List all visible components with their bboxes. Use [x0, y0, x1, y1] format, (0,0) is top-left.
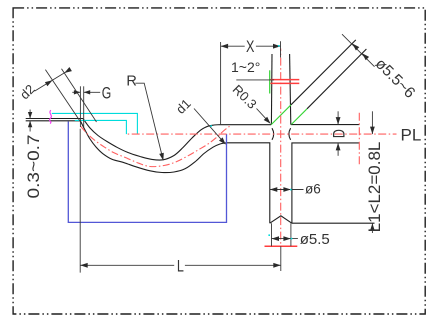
dimension X line [221, 45, 281, 47]
svg-text:ø6: ø6 [305, 182, 321, 197]
hole intersection arc left [272, 128, 274, 140]
green hole edge mark [269, 70, 271, 93]
channel bottom line to hole [227, 143, 270, 223]
svg-text:0.3~0.7: 0.3~0.7 [24, 135, 43, 199]
channel center red curve [81, 126, 230, 166]
right face centerline [358, 113, 360, 167]
dia5.5 extension lines [272, 223, 291, 246]
dimension d2 line [35, 70, 69, 91]
dimension L extension left [79, 129, 81, 273]
magenta break mark [49, 110, 51, 123]
wire [26, 119, 83, 121]
bottom face line [292, 222, 375, 224]
wall thickness arrows [29, 110, 31, 132]
dimension G line [72, 91, 100, 93]
angled hole upper wall [291, 40, 356, 105]
node PL centerline horizontal [126, 133, 396, 135]
green hidden edge lower [291, 109, 307, 125]
cyan stepped profile inner [75, 120, 127, 134]
angled hole dimension line [342, 34, 375, 66]
wall extension line A [45, 70, 80, 122]
red cross mark bottom [265, 245, 298, 247]
svg-text:X: X [246, 37, 254, 56]
side channel bottom right [292, 143, 360, 223]
radius leader [135, 83, 162, 155]
svg-text:L: L [177, 256, 184, 275]
dimension X extension left [220, 42, 222, 125]
red cross mark upper 2 [270, 82, 299, 84]
dimension dia6 line [270, 189, 304, 191]
dimension L line [80, 264, 281, 266]
svg-text:1~2°: 1~2° [231, 59, 260, 75]
dimension L extension right [280, 246, 282, 271]
d1 leader [194, 109, 224, 143]
fillet leader [257, 109, 269, 122]
svg-text:D: D [329, 129, 348, 138]
dimension X extension right [280, 41, 282, 57]
drill point cone [270, 216, 292, 223]
cyan stepped profile outer [52, 113, 138, 133]
angled hole lower wall [307, 49, 366, 109]
svg-text:ø5.5: ø5.5 [300, 231, 330, 248]
green hidden edge upper [271, 105, 291, 125]
svg-text:G: G [102, 83, 112, 102]
inner channel curve [83, 119, 220, 160]
dimension L1 L2 lines [371, 111, 373, 233]
dia5.5 dimension line [272, 238, 298, 240]
red cross mark upper 1 [270, 79, 299, 81]
taper leader line [236, 79, 274, 81]
groove edge lines G [80, 86, 83, 127]
blue body outline [68, 122, 226, 223]
vertical hole right wall [290, 54, 291, 125]
dimension D lines [337, 111, 339, 156]
vertical hole centerline [280, 49, 282, 247]
top surface right of hole [291, 124, 360, 126]
svg-text:R: R [126, 73, 136, 89]
top surface line left of hole [220, 124, 271, 126]
outer channel curve [80, 121, 226, 173]
vertical hole left wall [270, 54, 273, 125]
svg-text:PL: PL [401, 126, 422, 145]
snap ticks [210, 45, 292, 239]
wall extension line B [62, 69, 97, 122]
hole intersection arc right [289, 128, 291, 140]
svg-text:L1<L2=0.8L: L1<L2=0.8L [365, 142, 384, 233]
